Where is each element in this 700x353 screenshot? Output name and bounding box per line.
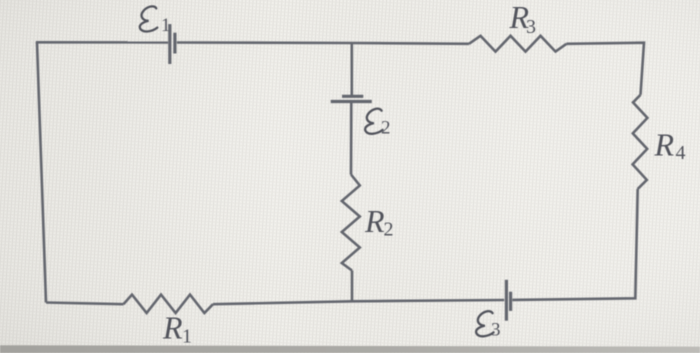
- wire bottom-right segment: [213, 300, 504, 304]
- wire middle branch mid: [350, 102, 353, 175]
- resistor R1: [123, 295, 213, 313]
- wire middle branch lower: [351, 271, 354, 302]
- svg-text:1: 1: [161, 15, 171, 36]
- svg-text:2: 2: [384, 219, 394, 241]
- svg-text:2: 2: [381, 117, 391, 138]
- wire left side: [37, 42, 46, 302]
- svg-text:4: 4: [676, 142, 686, 164]
- wire top-left segment: [36, 41, 168, 44]
- label R2: [364, 203, 394, 240]
- svg-text:3: 3: [491, 319, 501, 340]
- label R4: [654, 127, 686, 164]
- label EMF E1: [140, 6, 171, 35]
- resistor R4: [633, 95, 648, 189]
- wire right-lower segment: [512, 189, 637, 300]
- wire middle branch upper: [350, 43, 353, 96]
- svg-text:R: R: [364, 203, 385, 239]
- battery E3: [506, 280, 510, 321]
- svg-text:3: 3: [526, 16, 536, 38]
- resistor R2: [342, 175, 360, 271]
- label R3: [509, 0, 537, 38]
- label R1: [162, 309, 192, 347]
- label EMF E2: [365, 109, 390, 139]
- battery E1: [170, 24, 175, 64]
- wire bottom-left segment: [46, 303, 123, 305]
- label EMF E3: [476, 311, 500, 340]
- wire top-right segment: [567, 43, 645, 95]
- resistor R3: [469, 36, 567, 52]
- svg-text:R: R: [654, 127, 675, 163]
- wire top-middle segment: [177, 43, 469, 44]
- svg-text:R: R: [162, 309, 183, 345]
- battery E2: [331, 96, 372, 101]
- svg-text:1: 1: [182, 325, 192, 347]
